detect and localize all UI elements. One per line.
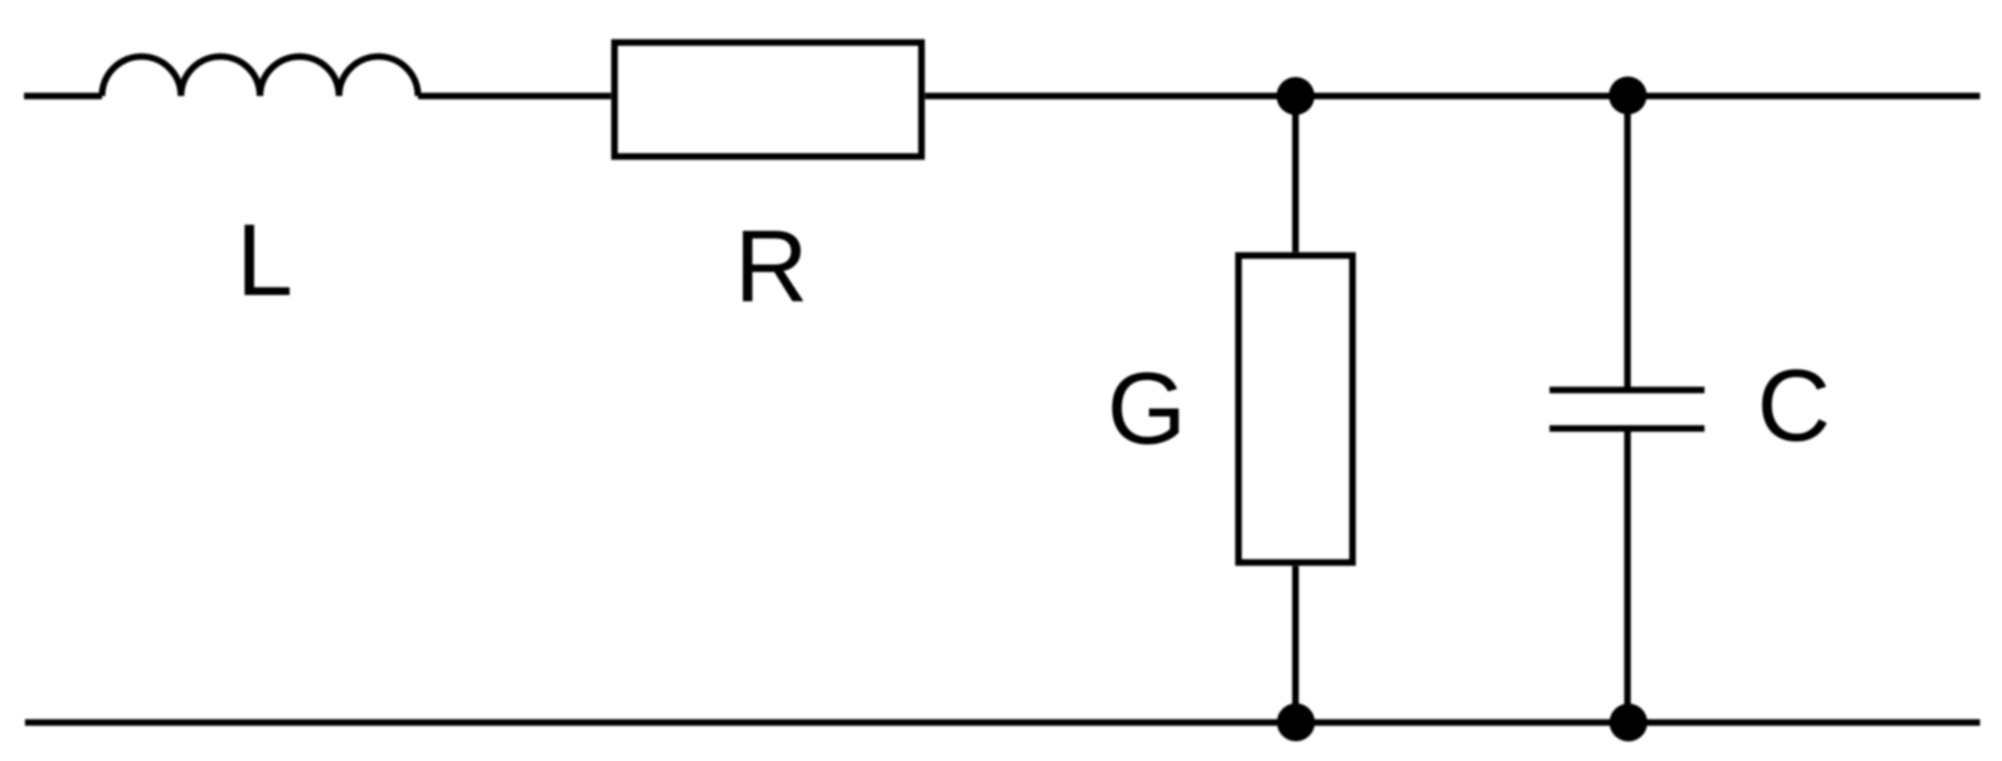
wire bottom rail bbox=[25, 719, 1980, 726]
node C junction dot (bottom left) bbox=[1277, 703, 1315, 741]
wire top-left lead bbox=[24, 93, 102, 100]
wire node B to top-right end bbox=[1627, 93, 1980, 100]
svg-text:C: C bbox=[1757, 349, 1831, 463]
resistor G bbox=[1239, 256, 1353, 563]
wire inductor to resistor R bbox=[418, 93, 611, 100]
capacitor C plates bbox=[1550, 390, 1705, 429]
resistor R bbox=[615, 43, 922, 157]
node A junction dot bbox=[1277, 77, 1315, 115]
node D junction dot (bottom right) bbox=[1609, 704, 1647, 742]
wire capacitor C to bottom rail bbox=[1624, 430, 1631, 723]
svg-text:L: L bbox=[236, 203, 293, 317]
wire resistor G to bottom rail bbox=[1292, 566, 1299, 723]
wire resistor R to node A bbox=[925, 93, 1295, 100]
svg-text:R: R bbox=[735, 209, 809, 323]
wire node A down to resistor G bbox=[1292, 96, 1299, 252]
svg-text:G: G bbox=[1107, 352, 1186, 466]
node B junction dot bbox=[1609, 77, 1647, 115]
wire node A to node B bbox=[1295, 93, 1627, 100]
wire node B down to capacitor C bbox=[1624, 96, 1631, 388]
inductor L bbox=[102, 57, 418, 96]
